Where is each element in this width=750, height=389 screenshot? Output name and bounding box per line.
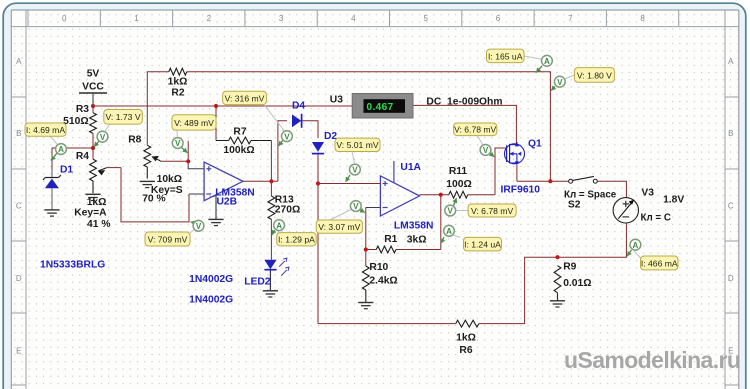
resistor R9 xyxy=(554,266,561,301)
wire U1A output feedback drop xyxy=(440,195,442,250)
svg-text:A: A xyxy=(728,57,734,66)
svg-text:A: A xyxy=(544,57,550,66)
junction R9 top node xyxy=(555,255,559,259)
svg-text:270Ω: 270Ω xyxy=(275,205,300,216)
wire R6 left to D2 column xyxy=(318,323,456,325)
svg-text:41 %: 41 % xyxy=(87,219,110,230)
resistor R6 xyxy=(456,320,479,327)
junction U2B output node xyxy=(269,179,273,183)
svg-text:U1A: U1A xyxy=(400,162,421,173)
svg-text:2.4kΩ: 2.4kΩ xyxy=(369,276,397,287)
svg-text:A: A xyxy=(58,145,64,154)
svg-text:V: V xyxy=(100,133,106,142)
svg-text:0: 0 xyxy=(62,14,67,23)
svg-text:100Ω: 100Ω xyxy=(446,179,471,190)
row letters xyxy=(16,57,734,356)
svg-text:V: V xyxy=(483,146,489,155)
wire R3 bottom to D1 xyxy=(52,148,93,170)
svg-text:1N4002G: 1N4002G xyxy=(189,295,233,306)
svg-text:B: B xyxy=(16,129,21,138)
svg-text:S2: S2 xyxy=(568,200,581,211)
ground under R4 xyxy=(85,193,100,195)
svg-text:A: A xyxy=(446,227,452,236)
svg-text:0.01Ω: 0.01Ω xyxy=(563,278,591,289)
ground under R10 xyxy=(358,302,373,304)
svg-text:5: 5 xyxy=(423,14,428,23)
junction VCC rail xyxy=(91,104,95,108)
probe V: 5.01 mV xyxy=(335,138,380,182)
svg-text:V: 1.80 V: V: 1.80 V xyxy=(577,70,612,80)
MOSFET Q1 IRF9610 xyxy=(505,142,525,165)
probe I: 1.24 uA xyxy=(441,225,502,250)
svg-text:8: 8 xyxy=(640,14,645,23)
resistor R2 xyxy=(169,68,187,75)
wire U3 to Q1 source xyxy=(413,105,516,144)
svg-text:V: V xyxy=(175,139,181,148)
svg-text:I: 165 uA: I: 165 uA xyxy=(488,51,523,61)
potentiometer R8 xyxy=(144,145,159,178)
wire U2B output up to D4 anode xyxy=(278,121,287,182)
svg-text:70 %: 70 % xyxy=(142,193,165,204)
svg-text:V: 316 mV: V: 316 mV xyxy=(225,93,265,103)
svg-text:R10: R10 xyxy=(369,262,388,273)
probe V: 489 mV xyxy=(172,115,216,153)
svg-text:V: V xyxy=(284,132,290,141)
wire S2 to V3 xyxy=(597,181,626,197)
svg-text:1N5333BRLG: 1N5333BRLG xyxy=(40,260,105,271)
svg-text:R4: R4 xyxy=(76,151,89,162)
junction Q1 drain node xyxy=(548,179,552,183)
svg-text:V: V xyxy=(448,207,454,216)
wire R2 right to Q1 drain column xyxy=(187,72,551,182)
svg-text:4: 4 xyxy=(351,14,356,23)
probe V: 3.07 mV xyxy=(316,201,365,234)
zener diode D1 xyxy=(43,170,61,210)
probe V: 709 mV xyxy=(145,220,204,246)
junction R7 tap on rail xyxy=(214,104,218,108)
ground under R9 xyxy=(550,300,565,302)
wire R1 feedback row xyxy=(366,249,377,251)
wire R8 wiper to U2B non-inverting input xyxy=(152,157,161,162)
svg-text:Key=A: Key=A xyxy=(74,208,107,219)
svg-text:2: 2 xyxy=(207,14,212,23)
svg-text:1: 1 xyxy=(134,14,139,23)
wire V3 minus down and across to R9 node xyxy=(558,223,627,257)
svg-text:6: 6 xyxy=(496,14,501,23)
probe V: 1.73 V xyxy=(94,110,142,147)
ground under R8 xyxy=(140,180,155,182)
svg-text:LM358N: LM358N xyxy=(394,221,433,232)
svg-text:V: 6.78 mV: V: 6.78 mV xyxy=(471,206,513,216)
junction R1 R10 node xyxy=(364,247,368,251)
svg-text:V: V xyxy=(352,166,358,175)
svg-text:V: 3.07 mV: V: 3.07 mV xyxy=(318,222,360,232)
wire R7 pullup from rail xyxy=(215,106,217,141)
probe V: 6.78 mV lower xyxy=(445,198,516,217)
op-amp U1A xyxy=(380,161,419,216)
wire Q1 drain to S2 xyxy=(516,165,518,181)
svg-text:10kΩ: 10kΩ xyxy=(157,174,182,185)
svg-text:V: 1.73 V: V: 1.73 V xyxy=(106,112,141,122)
resistor R3 xyxy=(90,106,97,148)
probe I: 165 uA xyxy=(487,49,553,72)
ground under D1 xyxy=(44,209,59,211)
svg-text:D4: D4 xyxy=(292,101,305,112)
wire node to U1A plus input xyxy=(318,183,380,185)
probe stub above R8 wiper junction xyxy=(187,141,189,162)
ground U2B power pin xyxy=(208,218,223,220)
svg-text:V3: V3 xyxy=(641,187,654,198)
wire R9 node to R6 xyxy=(479,257,558,323)
wire R7 right to U2B output node xyxy=(251,140,271,142)
multimeter U3 xyxy=(352,94,413,119)
svg-text:C: C xyxy=(16,202,22,211)
power VCC 5V xyxy=(79,69,107,107)
wire U1A output row R11 to Q1 gate xyxy=(420,194,449,196)
wire R10 from feedback node xyxy=(365,250,367,267)
wire Q1 gate riser xyxy=(495,148,507,195)
svg-text:510Ω: 510Ω xyxy=(63,116,88,127)
resistor R1 xyxy=(376,246,396,253)
resistor R13 xyxy=(268,196,275,219)
probe V: 6.78 mV upper xyxy=(454,123,497,157)
svg-text:B: B xyxy=(728,129,733,138)
svg-text:3: 3 xyxy=(279,14,284,23)
svg-text:I: 4.69 mA: I: 4.69 mA xyxy=(26,125,65,135)
svg-text:100kΩ: 100kΩ xyxy=(223,145,254,156)
diode D2 xyxy=(312,142,324,154)
svg-text:R7: R7 xyxy=(233,127,246,138)
svg-text:V: 6.78 mV: V: 6.78 mV xyxy=(454,125,496,135)
svg-text:I: 1.29 pA: I: 1.29 pA xyxy=(278,235,315,245)
svg-text:U2B: U2B xyxy=(217,197,238,208)
svg-text:uSamodelkina.ru: uSamodelkina.ru xyxy=(564,347,740,373)
svg-text:1.8V: 1.8V xyxy=(663,194,684,205)
svg-text:R6: R6 xyxy=(459,345,472,356)
svg-text:D: D xyxy=(728,274,734,283)
op-amp U2B xyxy=(204,162,243,219)
wire R13 from U2B output xyxy=(270,181,272,196)
svg-text:5V: 5V xyxy=(87,69,100,80)
svg-text:V: 489 mV: V: 489 mV xyxy=(174,118,214,128)
resistor R11 xyxy=(449,191,468,198)
wire R13 to LED2 xyxy=(270,219,272,259)
svg-text:A: A xyxy=(276,221,282,230)
svg-text:R1: R1 xyxy=(384,234,397,245)
junction U1A plus node xyxy=(316,181,320,185)
svg-text:V: V xyxy=(196,222,202,231)
svg-text:3kΩ: 3kΩ xyxy=(407,234,427,245)
svg-text:V: 5.01 mV: V: 5.01 mV xyxy=(336,140,378,150)
svg-text:V: V xyxy=(557,78,563,87)
svg-text:0.467: 0.467 xyxy=(367,102,394,113)
svg-text:Кл = C: Кл = C xyxy=(641,213,671,224)
probe I: 4.69 mA xyxy=(25,123,66,161)
probe V: 1.80 V xyxy=(551,68,614,91)
junction R8 wiper node xyxy=(186,159,190,163)
svg-text:VCC: VCC xyxy=(82,82,104,93)
probe I: 466 mA xyxy=(627,239,678,270)
junction R3 bottom node xyxy=(91,146,95,150)
svg-text:LED2: LED2 xyxy=(244,276,271,287)
probe I: 1.29 pA xyxy=(272,220,316,246)
svg-text:E: E xyxy=(16,347,21,356)
wire U2B output xyxy=(243,180,278,182)
svg-text:V: V xyxy=(353,202,359,211)
wire U1A minus input to R1/R10 node xyxy=(366,207,381,209)
junction U1A output node xyxy=(439,193,443,197)
svg-text:IRF9610: IRF9610 xyxy=(501,185,541,196)
resistor R10 xyxy=(362,266,369,303)
svg-text:DC 1e-009Ohm: DC 1e-009Ohm xyxy=(426,96,502,107)
svg-text:R3: R3 xyxy=(76,104,89,115)
ruler numbers xyxy=(62,14,645,23)
wire VCC rail to U3 xyxy=(93,105,352,107)
svg-text:R11: R11 xyxy=(449,166,468,177)
svg-text:1N4002G: 1N4002G xyxy=(189,274,233,285)
svg-text:A: A xyxy=(633,241,639,250)
svg-text:A: A xyxy=(16,57,22,66)
svg-text:1kΩ: 1kΩ xyxy=(168,77,188,88)
svg-text:I: 1.24 uA: I: 1.24 uA xyxy=(464,240,501,250)
wire R2 left drop to R8 xyxy=(147,72,169,146)
svg-text:U3: U3 xyxy=(330,95,343,106)
wire R4 wiper to U2B inverting node xyxy=(98,168,106,171)
potentiometer R4 xyxy=(90,148,106,193)
svg-text:C: C xyxy=(728,202,734,211)
svg-text:7: 7 xyxy=(568,14,573,23)
resistor R7 xyxy=(216,137,251,144)
svg-text:1kΩ: 1kΩ xyxy=(87,197,107,208)
ground under LED2 xyxy=(263,290,278,292)
probe V: 316 mV xyxy=(223,91,293,146)
svg-text:D1: D1 xyxy=(60,165,73,176)
svg-text:R9: R9 xyxy=(563,262,576,273)
svg-text:R8: R8 xyxy=(128,134,141,145)
wire D2 cathode down to R6 row xyxy=(317,154,319,324)
svg-text:R2: R2 xyxy=(171,88,184,99)
LED LED2 xyxy=(264,258,289,290)
svg-text:D: D xyxy=(16,274,22,283)
voltage source V3 xyxy=(613,198,638,223)
svg-text:I: 466 mA: I: 466 mA xyxy=(641,258,678,268)
wire D4 cathode to D2 xyxy=(302,121,318,138)
svg-text:Q1: Q1 xyxy=(528,139,542,150)
svg-text:1kΩ: 1kΩ xyxy=(456,333,476,344)
svg-text:V: 709 mV: V: 709 mV xyxy=(148,234,188,244)
switch S2 xyxy=(569,176,598,183)
wire junction to U2B plus input xyxy=(188,161,204,169)
diode D4 xyxy=(292,114,302,128)
